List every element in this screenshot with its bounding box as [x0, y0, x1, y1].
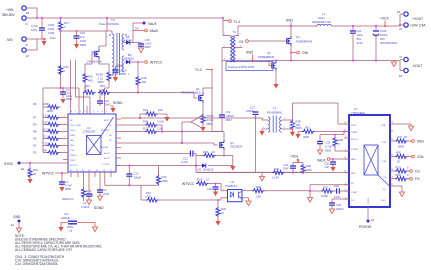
resistor R39 0 [333, 135, 349, 151]
wire long row to Q3 source [162, 132, 224, 141]
svg-text:36V-50V: 36V-50V [2, 13, 15, 17]
transformer T3 [106, 33, 130, 76]
svg-text:FG: FG [383, 189, 386, 191]
wire PGOOD [367, 207, 369, 220]
capacitor C17 [113, 64, 128, 78]
svg-text:C18: C18 [145, 38, 150, 42]
capacitor C22 27pF [283, 163, 297, 173]
svg-text:PGDSB: PGDSB [351, 149, 359, 151]
svg-text:UVLO: UVLO [70, 130, 76, 132]
svg-text:12.4K: 12.4K [272, 175, 279, 179]
svg-text:C13: C13 [134, 172, 139, 176]
node C5b stub [291, 51, 308, 55]
svg-text:ZVN4525E6: ZVN4525E6 [87, 60, 102, 64]
svg-text:SYNC: SYNC [70, 160, 76, 162]
svg-text:C12: C12 [183, 157, 188, 161]
svg-text:Q3: Q3 [230, 141, 234, 145]
wire U7 top right gnd [395, 124, 414, 131]
svg-text:40.2K: 40.2K [43, 127, 50, 131]
resistor R33 12.4K [262, 167, 293, 179]
wire Q3 drain to box [223, 150, 225, 156]
ground R37 open [307, 191, 312, 202]
svg-text:VAUX: VAUX [150, 29, 160, 33]
svg-text:RD2: RD2 [396, 173, 402, 177]
svg-text:100pF: 100pF [246, 109, 254, 113]
ground C28 open [329, 209, 334, 214]
svg-text:TIMER: TIMER [351, 132, 358, 134]
ground T2 primary [259, 129, 264, 136]
svg-text:.068uF: .068uF [226, 114, 235, 118]
junction VD1 bus [292, 171, 294, 173]
pin stubs U2 left [60, 118, 68, 174]
svg-text:T3: T3 [111, 18, 115, 22]
svg-text:22nF: 22nF [103, 192, 109, 196]
resistor RC05 2.15 [96, 72, 111, 85]
terminal T1-2 [223, 20, 240, 24]
svg-text:TAO: TAO [70, 139, 74, 142]
wire top input bus [27, 17, 223, 19]
resistor R14 2.0K [83, 84, 96, 95]
svg-text:R21: R21 [143, 127, 148, 131]
svg-text:AOUT: AOUT [104, 119, 110, 122]
svg-text:INTVCC: INTVCC [351, 139, 359, 141]
ground C11 right [92, 227, 97, 232]
wire bias verticals to U2 [71, 60, 110, 114]
wire bus to U7 pin14 [293, 172, 349, 174]
resistor R18 10K [136, 76, 147, 86]
svg-text:0805: 0805 [325, 149, 331, 153]
wire comp to R16 row [141, 185, 146, 200]
junction R10 [84, 87, 86, 89]
svg-text:34K: 34K [43, 148, 48, 152]
wire Q6 drain [99, 31, 106, 49]
terminal E5 +VOUT [397, 10, 408, 16]
junction C7 [61, 172, 63, 174]
resistor R5 22.1K [33, 134, 66, 140]
svg-text:RD1: RD1 [396, 166, 402, 170]
wire U7 ss pin C28 [332, 199, 349, 203]
capacitor C26 4.7uF [317, 141, 332, 153]
svg-text:T1: T1 [233, 30, 237, 34]
svg-text:COMP: COMP [351, 192, 358, 194]
ground bias box arrow [230, 166, 235, 171]
svg-text:PE-68386NL: PE-68386NL [267, 111, 283, 115]
svg-text:U3: U3 [231, 180, 235, 184]
svg-text:2200pF: 2200pF [61, 216, 70, 220]
svg-text:2K: 2K [33, 172, 36, 176]
wire row C12 [121, 153, 190, 155]
capacitor C7 intvcc [59, 173, 72, 191]
svg-text:R6: R6 [33, 102, 37, 106]
resistor R17 0 [59, 21, 70, 31]
svg-text:R20: R20 [64, 65, 69, 69]
capacitor C12 2.2uF [181, 151, 196, 165]
svg-text:4.7uF: 4.7uF [325, 145, 332, 149]
junction Q4 top [290, 25, 292, 27]
svg-text:2K: 2K [397, 160, 400, 164]
svg-text:UVLO_HBD: UVLO_HBD [70, 125, 81, 127]
svg-text:R4: R4 [33, 123, 37, 127]
junction vout [399, 24, 401, 26]
svg-text:0805: 0805 [398, 145, 404, 149]
resistor R7 4.12K [33, 113, 66, 119]
wire Q1 source [202, 103, 204, 114]
svg-text:C22: C22 [284, 163, 289, 167]
svg-text:T2: T2 [273, 107, 277, 111]
svg-text:400K: 400K [303, 135, 309, 139]
svg-text:D4: D4 [135, 27, 139, 31]
wire Q6 source to RC05 [99, 59, 109, 72]
transistor Q3 SI2325DS [214, 140, 242, 150]
resistor R33 2K [28, 163, 38, 178]
wire R18 [110, 62, 138, 93]
terminal VAUX circle [133, 29, 159, 33]
capacitor C4 [60, 88, 72, 101]
resistor R28 3.01K [121, 120, 164, 132]
capacitor C19 [74, 31, 87, 47]
svg-text:R10: R10 [88, 75, 93, 79]
svg-text:R18: R18 [142, 76, 147, 80]
svg-text:22.1K: 22.1K [43, 134, 50, 138]
capacitor CIN1-3 [31, 18, 56, 40]
svg-text:+VCX: +VCX [380, 17, 390, 21]
capacitor C27 100pF [246, 106, 259, 173]
wire E8 to bus [27, 8, 37, 18]
svg-text:2.87K: 2.87K [43, 120, 50, 124]
svg-text:C16: C16 [104, 99, 109, 103]
svg-text:BAS516: BAS516 [122, 39, 132, 43]
svg-text:C1: C1 [83, 201, 87, 205]
resistor RD1 0 [395, 166, 420, 174]
svg-text:VAUX: VAUX [148, 22, 158, 26]
junction R17 corner [59, 30, 61, 32]
svg-text:Q1: Q1 [196, 87, 200, 91]
node GND E1 [11, 215, 22, 233]
svg-text:J1: J1 [25, 22, 28, 26]
svg-text:C14: GRM43XR72A473K060L: C14: GRM43XR72A473K060L [15, 262, 58, 266]
svg-text:1212: 1212 [50, 36, 56, 40]
svg-text:1.5K: 1.5K [157, 127, 163, 131]
svg-text:E1: E1 [11, 223, 15, 227]
svg-text:CSN: CSN [382, 161, 387, 163]
svg-text:499: 499 [88, 79, 93, 83]
ground output open [391, 61, 396, 67]
wire T1 primary top [223, 18, 224, 36]
svg-text:FG: FG [415, 177, 420, 181]
svg-text:62kHz/np: 62kHz/np [62, 197, 74, 201]
wire SYNC [21, 162, 64, 164]
svg-text:SW1: SW1 [417, 140, 424, 144]
resistor R26 10 [203, 150, 216, 158]
wire T2 primary feed [121, 118, 262, 120]
wire RC05 bottom [108, 81, 110, 89]
capacitor C20 2.2uF [207, 184, 219, 192]
wire Q4 gate from C9 [239, 40, 287, 44]
node SW2 stub [246, 51, 254, 62]
wire T3 sec1 to D1 [124, 42, 126, 44]
svg-text:Q4: Q4 [296, 35, 300, 39]
wire Q2 source ground [275, 71, 277, 85]
svg-text:0805: 0805 [98, 80, 104, 84]
ground R34 arrow [215, 221, 220, 226]
svg-text:20K: 20K [158, 108, 163, 112]
pin stubs U7 left [344, 124, 349, 199]
wire R17 top [60, 18, 62, 21]
wire ladder vertical [42, 107, 44, 153]
svg-text:0805: 0805 [80, 43, 86, 47]
ground C18 open [138, 48, 143, 53]
junction D5 anode [195, 165, 197, 167]
junction SYNC R33 [29, 162, 31, 164]
wire U3 bottom right gnd [242, 198, 251, 206]
diode D2 BAS516 [124, 53, 134, 64]
svg-text:E7: E7 [26, 54, 30, 58]
svg-text:SENSEN: SENSEN [100, 147, 109, 149]
svg-text:+COMP: +COMP [102, 164, 110, 166]
ground C26 open [317, 150, 322, 155]
svg-text:1uF: 1uF [325, 165, 330, 169]
svg-text:J3: J3 [399, 27, 402, 31]
junction comp rail [128, 165, 130, 167]
svg-text:+VOUT: +VOUT [412, 17, 423, 21]
svg-text:INTVCC: INTVCC [150, 61, 163, 65]
resistor R23 10 [196, 178, 228, 191]
node E3 PGOOD [359, 218, 375, 229]
svg-text:D5: D5 [198, 168, 202, 172]
svg-text:C26: C26 [326, 141, 331, 145]
wire T1 secondary bottom to return rail [235, 60, 236, 62]
svg-text:E3: E3 [371, 218, 375, 222]
node +VCC stub [380, 17, 390, 28]
node +VD1 [290, 155, 299, 163]
svg-text:SGND: SGND [113, 101, 123, 105]
junction T3 feed [106, 17, 108, 19]
svg-text:CG: CG [415, 170, 420, 174]
resistor R3 34K [33, 148, 66, 154]
svg-text:33pF: 33pF [104, 103, 110, 107]
svg-text:10nF: 10nF [334, 195, 340, 199]
svg-text:1.8K: 1.8K [256, 195, 262, 199]
svg-text:TBLNK: TBLNK [70, 155, 77, 157]
svg-text:+VIN: +VIN [6, 8, 14, 12]
svg-text:R3: R3 [33, 151, 37, 155]
svg-text:E2: E2 [21, 167, 25, 171]
svg-text:D1: D1 [126, 35, 130, 39]
node +VOUT label [410, 17, 426, 28]
wire output corner [400, 14, 403, 26]
svg-text:T1:4: T1:4 [195, 68, 202, 72]
ground SGND near U2 top [110, 101, 123, 113]
svg-text:Q2: Q2 [267, 51, 271, 55]
svg-text:GND: GND [13, 215, 21, 219]
wire T1-4 drain path [203, 69, 212, 93]
ground C17 [113, 77, 118, 82]
svg-text:220uF: 220uF [380, 33, 388, 37]
svg-text:VMID: VMID [70, 135, 76, 137]
svg-text:R7: R7 [33, 116, 37, 120]
pin stubs U2 bottom [71, 172, 111, 177]
svg-text:GND: GND [381, 200, 386, 202]
svg-text:+VD1: +VD1 [290, 155, 299, 159]
svg-text:220nF: 220nF [336, 207, 344, 211]
svg-text:INTVCC: INTVCC [70, 165, 78, 167]
junction C20 [215, 183, 217, 185]
svg-text:R19: R19 [162, 175, 167, 179]
svg-text:PGOOD: PGOOD [359, 225, 372, 229]
node +VIN label [2, 8, 15, 17]
ground C4 [60, 99, 65, 104]
op-amp U2 LT8310 body [68, 111, 116, 172]
svg-text:GND: GND [351, 173, 356, 175]
wire comp bottom rail [105, 177, 159, 185]
terminal INTVCC circle [145, 61, 163, 65]
svg-text:E8: E8 [26, 11, 30, 15]
svg-text:C20: C20 [207, 187, 212, 191]
svg-text:SI2325DS: SI2325DS [230, 145, 242, 149]
ground SGND label [86, 198, 104, 210]
junction R17 bus [59, 17, 61, 19]
capacitor C11 2200pF [61, 212, 95, 233]
svg-text:LT8311EFE: LT8311EFE [351, 111, 365, 115]
svg-text:AOUT: AOUT [104, 152, 110, 155]
svg-text:R23: R23 [197, 178, 202, 182]
resistor R38 100 [289, 120, 302, 131]
svg-text:PDMDW9118LD: PDMDW9118LD [181, 91, 201, 95]
svg-text:CIN2: CIN2 [48, 27, 55, 31]
svg-text:PGA: PGA [381, 124, 386, 127]
svg-text:TOS: TOS [70, 150, 75, 152]
svg-text:E5: E5 [397, 10, 401, 14]
resistor RD2 0 [395, 173, 420, 181]
transformer T3 label [99, 18, 120, 26]
svg-text:BAS516: BAS516 [204, 168, 214, 172]
resistor R48 232K [301, 163, 312, 174]
capacitor C14 [212, 88, 234, 132]
svg-text:-VIN: -VIN [6, 38, 13, 42]
ground R51 arrow [295, 134, 300, 139]
svg-text:R2: R2 [33, 144, 37, 148]
junction sense join [181, 130, 183, 132]
wire T2 to U7 [293, 103, 350, 124]
svg-text:10K: 10K [142, 80, 147, 84]
svg-text:R33: R33 [274, 167, 279, 171]
svg-text:R15: R15 [100, 84, 105, 88]
junction R34 [217, 199, 219, 201]
svg-text:100K: 100K [162, 179, 168, 183]
svg-text:C5b: C5b [302, 51, 308, 55]
wire FB row [310, 185, 349, 191]
ground C19 [74, 44, 79, 49]
svg-text:TAS: TAS [70, 144, 74, 147]
svg-text:232K: 232K [306, 168, 312, 172]
junction CIN top [41, 17, 43, 19]
svg-text:ALL CERAMIC CAPACITORS ARE X7R: ALL CERAMIC CAPACITORS ARE X7R. [15, 248, 73, 252]
wire D1 cathode node [130, 23, 141, 43]
ground R24 [164, 117, 169, 122]
svg-text:RCS1: RCS1 [207, 114, 215, 118]
capacitor C21 10uF [350, 26, 363, 61]
terminal E7 [22, 48, 30, 58]
svg-text:250V: 250V [67, 225, 73, 229]
wire Q6 gate [92, 54, 95, 64]
terminal J4 [399, 55, 408, 62]
svg-text:CSb: CSb [417, 155, 424, 159]
wire R20 bottom to C4 row [61, 87, 80, 89]
wire T1 primary bottom [221, 48, 223, 116]
wire C26 bar [320, 132, 344, 142]
wire R10 leads [85, 64, 92, 88]
svg-text:C25: C25 [324, 162, 329, 166]
node SW1 stub [286, 19, 293, 28]
svg-text:CG: CG [383, 177, 386, 179]
svg-text:3.01K: 3.01K [157, 120, 164, 124]
svg-text:PDME9RD46: PDME9RD46 [296, 40, 313, 44]
svg-text:U2: U2 [87, 126, 91, 130]
transformer T1 [222, 30, 243, 62]
svg-text:R45: R45 [396, 151, 401, 155]
svg-text:SYNC: SYNC [4, 162, 14, 166]
svg-text:C9: C9 [239, 40, 243, 44]
svg-text:2K: 2K [404, 135, 407, 139]
svg-text:RC05: RC05 [96, 73, 103, 77]
svg-text:0805: 0805 [65, 187, 71, 191]
ground T2 secondary [290, 129, 295, 136]
svg-text:INTVCC: INTVCC [182, 182, 195, 186]
node INTVCC feed opto [182, 182, 195, 186]
wire E7 [27, 39, 37, 50]
svg-text:Q6: Q6 [91, 50, 95, 54]
wire Q4 source down [290, 46, 292, 61]
junction R38 bottom [292, 128, 294, 130]
ground bus open arrow [259, 173, 264, 181]
resistor R15 1.0K [98, 84, 111, 95]
pin stubs U7 right [390, 124, 395, 186]
junction C21 [352, 25, 354, 27]
svg-text:R30: R30 [256, 185, 261, 189]
svg-text:C11: C11 [64, 212, 69, 216]
svg-text:C17: C17 [117, 64, 122, 68]
svg-text:R33: R33 [33, 168, 38, 172]
junction R6 node [59, 87, 61, 89]
diode D5 BAS516 [198, 163, 214, 171]
svg-text:100pF: 100pF [134, 176, 142, 180]
junction C4 [62, 87, 64, 89]
svg-text:D2: D2 [128, 53, 132, 57]
wire kelvin sense V [182, 116, 202, 144]
ground R33 [27, 177, 32, 184]
svg-text:1.0uF: 1.0uF [145, 42, 152, 46]
svg-text:LT8310FE: LT8310FE [83, 130, 96, 134]
ground C25 [330, 167, 335, 172]
svg-text:SYNC: SYNC [351, 125, 357, 127]
ground T3 return arrow [112, 74, 116, 76]
svg-text:10: 10 [206, 178, 209, 182]
svg-text:0805: 0805 [120, 72, 126, 76]
inductor L1 [312, 12, 334, 26]
wire T1 secondary top to SW rail [238, 26, 317, 36]
svg-text:AOUT: AOUT [104, 157, 110, 160]
ground C11 left [58, 227, 63, 232]
resistor R6 200K [33, 102, 61, 113]
transformer T2 PE-68386NL [262, 107, 289, 133]
svg-text:7.32K: 7.32K [43, 141, 50, 145]
svg-text:35V: 35V [380, 37, 385, 41]
svg-text:R28: R28 [143, 120, 148, 124]
ground Q2 arrow [273, 84, 278, 89]
terminal J2 [22, 37, 29, 47]
svg-text:SW1: SW1 [286, 19, 293, 23]
wire L1 to output [334, 25, 401, 27]
